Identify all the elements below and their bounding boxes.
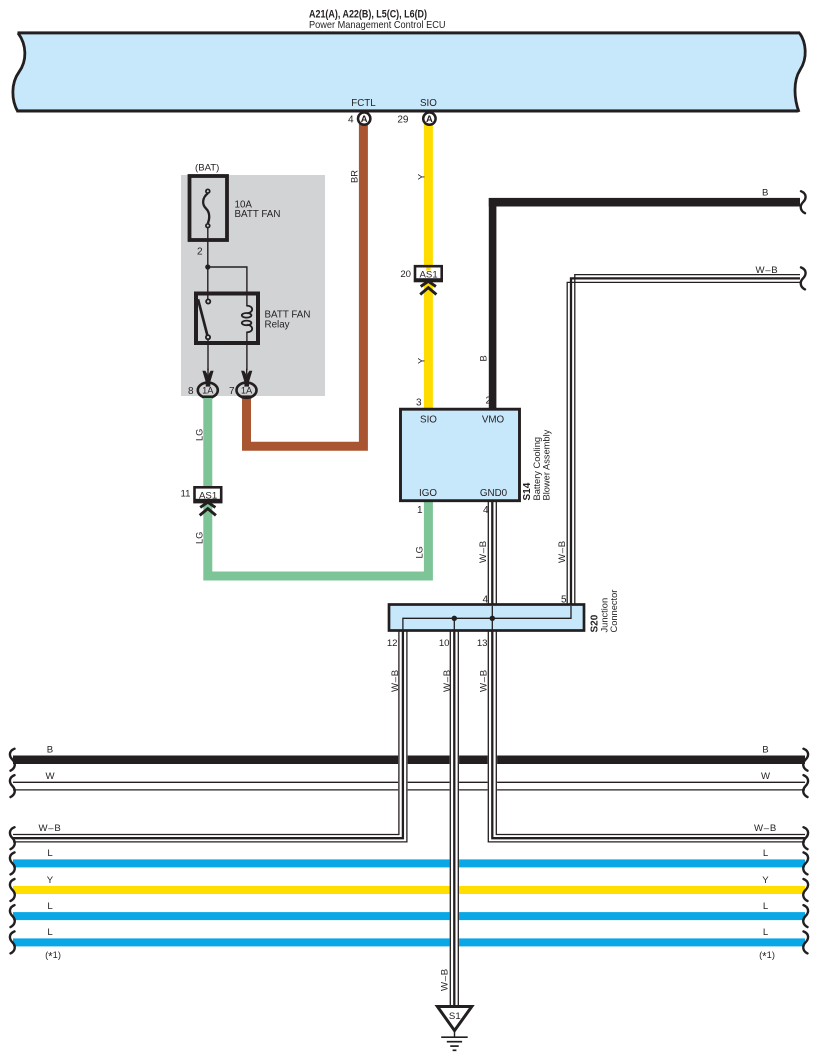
svg-text:L: L xyxy=(763,927,769,938)
svg-text:4: 4 xyxy=(348,114,354,125)
svg-text:(*1): (*1) xyxy=(759,950,775,964)
svg-text:W: W xyxy=(761,771,771,782)
svg-text:11: 11 xyxy=(181,489,191,500)
svg-text:Battery Cooling: Battery Cooling xyxy=(532,437,542,501)
svg-text:8: 8 xyxy=(188,386,194,397)
svg-text:Blower Assembly: Blower Assembly xyxy=(542,429,552,500)
svg-text:W–B: W–B xyxy=(440,968,451,991)
svg-text:W–B: W–B xyxy=(754,823,777,834)
svg-text:29: 29 xyxy=(397,114,409,125)
svg-text:W–B: W–B xyxy=(390,669,401,692)
svg-text:2: 2 xyxy=(485,396,491,407)
svg-text:7: 7 xyxy=(229,386,235,397)
svg-text:VMO: VMO xyxy=(482,415,505,426)
svg-text:20: 20 xyxy=(400,269,411,280)
svg-text:W–B: W–B xyxy=(39,823,62,834)
svg-text:FCTL: FCTL xyxy=(351,98,376,109)
svg-text:B: B xyxy=(479,355,489,361)
svg-text:LG: LG xyxy=(195,429,205,441)
svg-text:W–B: W–B xyxy=(442,669,453,692)
svg-text:S1: S1 xyxy=(449,1011,461,1022)
svg-text:Y: Y xyxy=(416,358,426,364)
svg-text:GND0: GND0 xyxy=(480,488,508,499)
svg-text:AS1: AS1 xyxy=(199,490,217,501)
svg-text:3: 3 xyxy=(416,398,422,409)
svg-text:1A: 1A xyxy=(202,386,214,396)
svg-text:Relay: Relay xyxy=(265,319,290,330)
svg-text:Power Management Control ECU: Power Management Control ECU xyxy=(309,19,446,31)
svg-text:10: 10 xyxy=(439,638,450,649)
svg-text:12: 12 xyxy=(387,638,398,649)
svg-text:L: L xyxy=(47,927,53,938)
svg-text:Connector: Connector xyxy=(609,590,619,633)
svg-text:LG: LG xyxy=(415,546,425,558)
svg-text:W–B: W–B xyxy=(557,540,568,563)
svg-text:BR: BR xyxy=(350,170,360,183)
svg-text:W–B: W–B xyxy=(478,669,489,692)
svg-text:SIO: SIO xyxy=(420,415,437,426)
svg-text:BATT FAN: BATT FAN xyxy=(235,209,281,220)
svg-text:Y: Y xyxy=(47,875,54,886)
svg-text:A: A xyxy=(426,113,433,124)
svg-text:Junction: Junction xyxy=(600,598,610,633)
svg-text:A: A xyxy=(361,113,368,124)
svg-text:B: B xyxy=(47,745,53,756)
svg-text:IGO: IGO xyxy=(419,488,437,499)
svg-text:B: B xyxy=(762,745,768,756)
svg-text:2: 2 xyxy=(197,247,203,258)
svg-text:Y: Y xyxy=(416,174,426,180)
svg-text:Y: Y xyxy=(762,875,769,886)
svg-text:L: L xyxy=(763,848,769,859)
svg-text:SIO: SIO xyxy=(420,98,437,109)
svg-text:1A: 1A xyxy=(241,386,253,396)
svg-text:W: W xyxy=(45,771,55,782)
svg-text:L: L xyxy=(47,901,53,912)
svg-text:W–B: W–B xyxy=(756,265,779,276)
svg-text:AS1: AS1 xyxy=(420,270,438,281)
svg-text:(*1): (*1) xyxy=(45,950,61,964)
svg-text:L: L xyxy=(47,848,53,859)
svg-text:(BAT): (BAT) xyxy=(195,163,219,174)
svg-text:LG: LG xyxy=(195,532,205,544)
svg-text:L: L xyxy=(763,901,769,912)
svg-text:B: B xyxy=(762,187,768,198)
svg-text:13: 13 xyxy=(477,638,488,649)
svg-text:W–B: W–B xyxy=(478,540,489,563)
svg-text:1: 1 xyxy=(417,505,423,516)
